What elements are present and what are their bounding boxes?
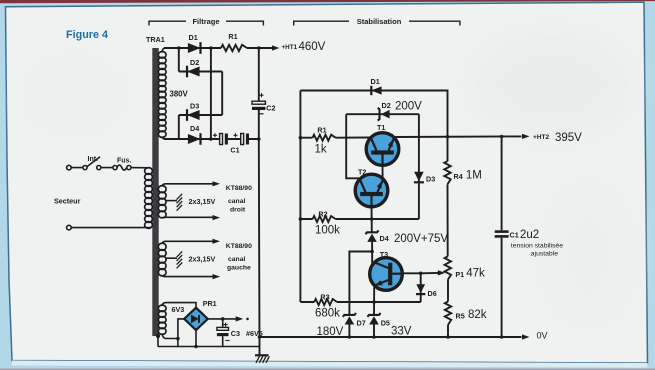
svg-text:Filtrage: Filtrage — [192, 17, 219, 26]
svg-text:Int.: Int. — [88, 156, 99, 163]
scan tone left margin — [15, 45, 135, 145]
T2 collector branch — [346, 114, 360, 178]
junction bottom wire / mid column — [209, 137, 213, 141]
junction 0V/D5 — [372, 335, 376, 339]
svg-text:tension stabilisée: tension stabilisée — [511, 243, 563, 250]
resistor R4 1M — [444, 161, 450, 184]
R3 row wire — [300, 301, 420, 303]
capacitor C1 2u2 bottom plate — [495, 235, 509, 238]
junction bottom wire / C2 column — [257, 137, 261, 141]
svg-text:2x3,15V: 2x3,15V — [189, 197, 216, 206]
svg-text:+HT2: +HT2 — [533, 134, 549, 141]
svg-text:R1: R1 — [228, 32, 237, 41]
svg-text:2u2: 2u2 — [520, 229, 539, 241]
heater2 center tap — [166, 257, 177, 259]
svg-text:47k: 47k — [466, 268, 485, 280]
junction 0V/D7 — [348, 335, 352, 339]
resistor R1 (filtrage) — [221, 45, 247, 51]
svg-text:33V: 33V — [391, 325, 412, 337]
primary terminal bottom — [67, 225, 72, 230]
PR1 bottom vertex wire — [195, 330, 197, 346]
heater winding 6V3 — [158, 305, 166, 311]
D6 column — [420, 273, 422, 302]
junction 6V3-bottom/PR1-left — [176, 337, 180, 341]
junction HT2/divider rail — [446, 135, 450, 139]
svg-text:D4: D4 — [380, 234, 389, 243]
HV secondary winding 380V — [158, 52, 166, 58]
potentiometer P1 47k — [445, 256, 451, 279]
capacitor C3 plus — [224, 323, 228, 327]
svg-text:6V3: 6V3 — [172, 305, 185, 314]
svg-text:100k: 100k — [315, 224, 340, 236]
C2 column lower / main ground column — [258, 110, 261, 355]
junction top wire / C2 column — [257, 46, 261, 50]
capacitor C1b plus — [234, 133, 238, 137]
R1 row wire — [300, 137, 369, 139]
svg-text:D2: D2 — [190, 58, 199, 67]
T2 base column — [371, 206, 374, 265]
capacitor C1b right plate — [246, 134, 249, 145]
zener D4 — [367, 234, 377, 242]
C3 bottom lead — [222, 336, 224, 346]
capacitor C3 bottom plate — [217, 333, 229, 336]
scan tone upper right — [467, 27, 637, 143]
svg-text:D2: D2 — [382, 101, 391, 110]
fuse Fus squiggle — [117, 165, 127, 170]
primary winding — [145, 168, 153, 175]
svg-text:droit: droit — [230, 206, 246, 213]
svg-text:380V: 380V — [170, 89, 189, 98]
zener D2 (stab) — [381, 110, 390, 119]
svg-text:200V: 200V — [395, 100, 422, 112]
wire D1-D2 branch — [178, 48, 180, 72]
heater1 center tap — [166, 200, 177, 202]
svg-text:+HT1: +HT1 — [282, 44, 298, 51]
LT bottom wire — [158, 346, 260, 348]
junction D4/T3/D7 branch — [370, 250, 374, 254]
junction 0V/C1 column — [500, 335, 504, 339]
svg-text:Figure 4: Figure 4 — [66, 29, 108, 41]
0V rail wire — [260, 336, 522, 338]
junction top wire / mid column — [209, 46, 213, 50]
diode D2 (filtrage) — [187, 67, 200, 77]
wire D2-D3 column — [221, 72, 223, 116]
svg-text:2x3,15V: 2x3,15V — [189, 254, 216, 263]
junction 0V/divider rail — [446, 335, 450, 339]
svg-text:ajustable: ajustable — [531, 251, 558, 258]
capacitor C3 top plate — [217, 327, 229, 330]
svg-text:Stabilisation: Stabilisation — [357, 17, 402, 26]
svg-text:T1: T1 — [377, 123, 385, 132]
HV bottom wire — [164, 138, 260, 140]
resistor R5 82k — [445, 302, 451, 325]
heater1 bottom arrow — [213, 215, 221, 220]
D7 lower lead — [348, 324, 350, 337]
left rail — [299, 91, 301, 303]
svg-text:200V+75V: 200V+75V — [394, 233, 448, 245]
svg-text:R2: R2 — [318, 209, 327, 218]
D2 row wire — [346, 113, 419, 115]
primary bottom lead wire — [69, 227, 152, 229]
capacitor C1a plus — [213, 133, 217, 137]
HV secondary bottom connect — [162, 137, 165, 139]
transistor T3 body — [370, 258, 403, 291]
R2 row wire — [300, 218, 419, 220]
transistor T3 symbol — [388, 263, 392, 286]
heater2 bottom arrow — [213, 274, 221, 279]
svg-text:D1: D1 — [371, 77, 380, 86]
svg-text:C1: C1 — [230, 146, 239, 155]
svg-text:C1: C1 — [510, 230, 519, 239]
D7 branch wire — [349, 252, 372, 315]
svg-text:680k: 680k — [315, 307, 340, 319]
diode D3 (stab) — [414, 172, 424, 181]
svg-text:D4: D4 — [190, 124, 199, 133]
PR1 output dot mark — [246, 318, 249, 321]
capacitor C1a left plate — [220, 134, 223, 145]
fuse Fus terminal b — [127, 166, 131, 170]
diode D1 (stab) — [371, 86, 381, 94]
svg-text:C3: C3 — [231, 329, 240, 338]
HV secondary top connect — [162, 48, 165, 52]
heater winding canal droit — [158, 186, 166, 193]
svg-text:D6: D6 — [428, 289, 437, 298]
diode D1 (filtrage) — [188, 43, 201, 53]
junction T3 emitter/R3 row — [372, 300, 376, 304]
junction D6 top — [419, 272, 423, 276]
capacitor C3 minus — [226, 340, 230, 342]
svg-text:R1: R1 — [317, 126, 326, 135]
svg-text:canal: canal — [228, 256, 245, 263]
PR1 output arrow — [236, 316, 244, 321]
stabilisation bracket — [294, 21, 460, 25]
svg-text:gauche: gauche — [227, 265, 251, 272]
wire D3 row — [179, 114, 222, 116]
diode D6 — [416, 284, 425, 293]
heater1 top lead — [162, 184, 213, 186]
svg-text:R4: R4 — [454, 172, 463, 181]
6V3 bottom lead — [162, 334, 178, 338]
fuse Fus terminal a — [113, 166, 117, 170]
primary terminal top — [67, 165, 72, 170]
capacitor C2 bottom plate — [252, 107, 265, 110]
D1 row wire — [300, 91, 447, 162]
capacitor C1 2u2 top plate — [495, 230, 509, 233]
ground bar — [255, 354, 269, 356]
HT2 row wire — [396, 135, 522, 138]
ground hatching — [256, 356, 269, 363]
PR1 left vertex wire — [178, 319, 184, 347]
capacitor C1b left plate — [241, 134, 244, 145]
maroon top page edge — [0, 0, 655, 3]
T3 emitter column — [373, 287, 375, 338]
wire D3-D4 branch — [178, 115, 180, 139]
wire mid column — [210, 48, 212, 139]
switch Int blade — [87, 157, 100, 167]
svg-text:C2: C2 — [266, 103, 275, 112]
resistor R2 100k — [313, 216, 336, 222]
heater2 top arrow — [213, 239, 221, 244]
junction rail/R2 row — [299, 217, 303, 221]
heater1 bottom lead — [162, 216, 213, 218]
C3 top lead — [222, 319, 224, 327]
resistor R1 1k (stab) — [313, 135, 336, 141]
junction PR1 bottom — [194, 345, 198, 349]
junction 0V/ground column — [258, 335, 262, 339]
T1 base to T2 emitter — [382, 164, 384, 177]
heater winding canal gauche — [158, 243, 166, 250]
svg-text:0V: 0V — [537, 331, 548, 341]
junction T2 base/R2 row — [370, 217, 374, 221]
diode D3 (filtrage) — [187, 110, 200, 120]
svg-text:1k: 1k — [315, 144, 327, 156]
svg-text:D5: D5 — [381, 318, 390, 327]
transistor T1 symbol — [371, 150, 394, 154]
T3 base row wire — [402, 272, 439, 274]
zener D5 — [369, 316, 379, 324]
svg-text:P1: P1 — [455, 270, 464, 279]
transformer TRA1 core — [152, 48, 158, 336]
zener D7 — [345, 316, 355, 324]
switch Int contact a — [83, 166, 87, 170]
core ground stub — [157, 336, 159, 347]
svg-text:KT88/90: KT88/90 — [226, 185, 252, 192]
arrow +HT1 — [272, 45, 280, 50]
svg-text:PR1: PR1 — [203, 299, 217, 308]
junction top wire / D2 branch — [177, 46, 181, 50]
HV top wire — [164, 47, 273, 49]
heater2 tap chassis hatch — [177, 251, 183, 268]
PR1 output wire — [208, 318, 236, 320]
heater1 top arrow — [213, 181, 221, 186]
svg-text:Fus.: Fus. — [117, 157, 131, 164]
C1 output column — [501, 137, 503, 338]
scan tone mid right — [533, 175, 643, 335]
bottom page edge line — [0, 369, 655, 370]
svg-text:82k: 82k — [468, 309, 487, 321]
switch Int contact b — [97, 166, 101, 170]
divider rail segments — [447, 184, 450, 337]
svg-text:D3: D3 — [190, 101, 199, 110]
resistor R3 680k — [314, 299, 337, 305]
svg-text:D3: D3 — [426, 175, 435, 184]
svg-text:1M: 1M — [466, 169, 482, 181]
junction HT2/C1 column — [500, 135, 504, 139]
junction C3 top — [221, 317, 225, 321]
rectifier PR1 body — [184, 308, 208, 330]
svg-text:Secteur: Secteur — [54, 197, 81, 206]
svg-text:T2: T2 — [358, 168, 366, 177]
heater2 bottom lead — [162, 276, 213, 277]
capacitor C1a right plate — [225, 134, 228, 145]
heater1 tap chassis hatch — [177, 194, 183, 211]
svg-text:R3: R3 — [320, 292, 329, 301]
arrow 0V — [522, 334, 530, 339]
capacitor C2 plus — [260, 93, 264, 97]
svg-text:D7: D7 — [357, 318, 366, 327]
svg-text:R5: R5 — [456, 311, 465, 320]
transistor T1 body — [366, 133, 399, 166]
svg-text:395V: 395V — [555, 132, 582, 144]
svg-text:TRA1: TRA1 — [146, 35, 165, 44]
PR1 inner diode — [191, 315, 199, 324]
svg-text:canal: canal — [228, 198, 245, 205]
transistor T2 body — [355, 174, 388, 207]
primary top lead wire — [69, 167, 149, 169]
junction rail/R1 row — [299, 136, 303, 140]
svg-text:T3: T3 — [380, 250, 388, 259]
D3 column — [418, 114, 420, 219]
heater2 top lead — [162, 241, 213, 243]
svg-text:KT88/90: KT88/90 — [226, 243, 252, 250]
filtrage bracket — [149, 21, 263, 25]
diode D4 (filtrage) — [188, 134, 201, 144]
bottom light band — [12, 361, 648, 368]
junction core bottom — [156, 334, 160, 338]
arrow P1 wiper — [438, 270, 446, 275]
capacitor C2 minus — [259, 113, 264, 115]
C2 column upper — [258, 48, 260, 101]
svg-text:460V: 460V — [299, 41, 326, 53]
arrow +HT2 — [522, 134, 530, 139]
wire D2 row — [179, 71, 222, 73]
capacitor C2 top plate — [252, 101, 265, 104]
svg-text:D1: D1 — [189, 33, 198, 42]
transistor T2 symbol — [360, 192, 383, 196]
6V3 top lead — [162, 303, 196, 308]
